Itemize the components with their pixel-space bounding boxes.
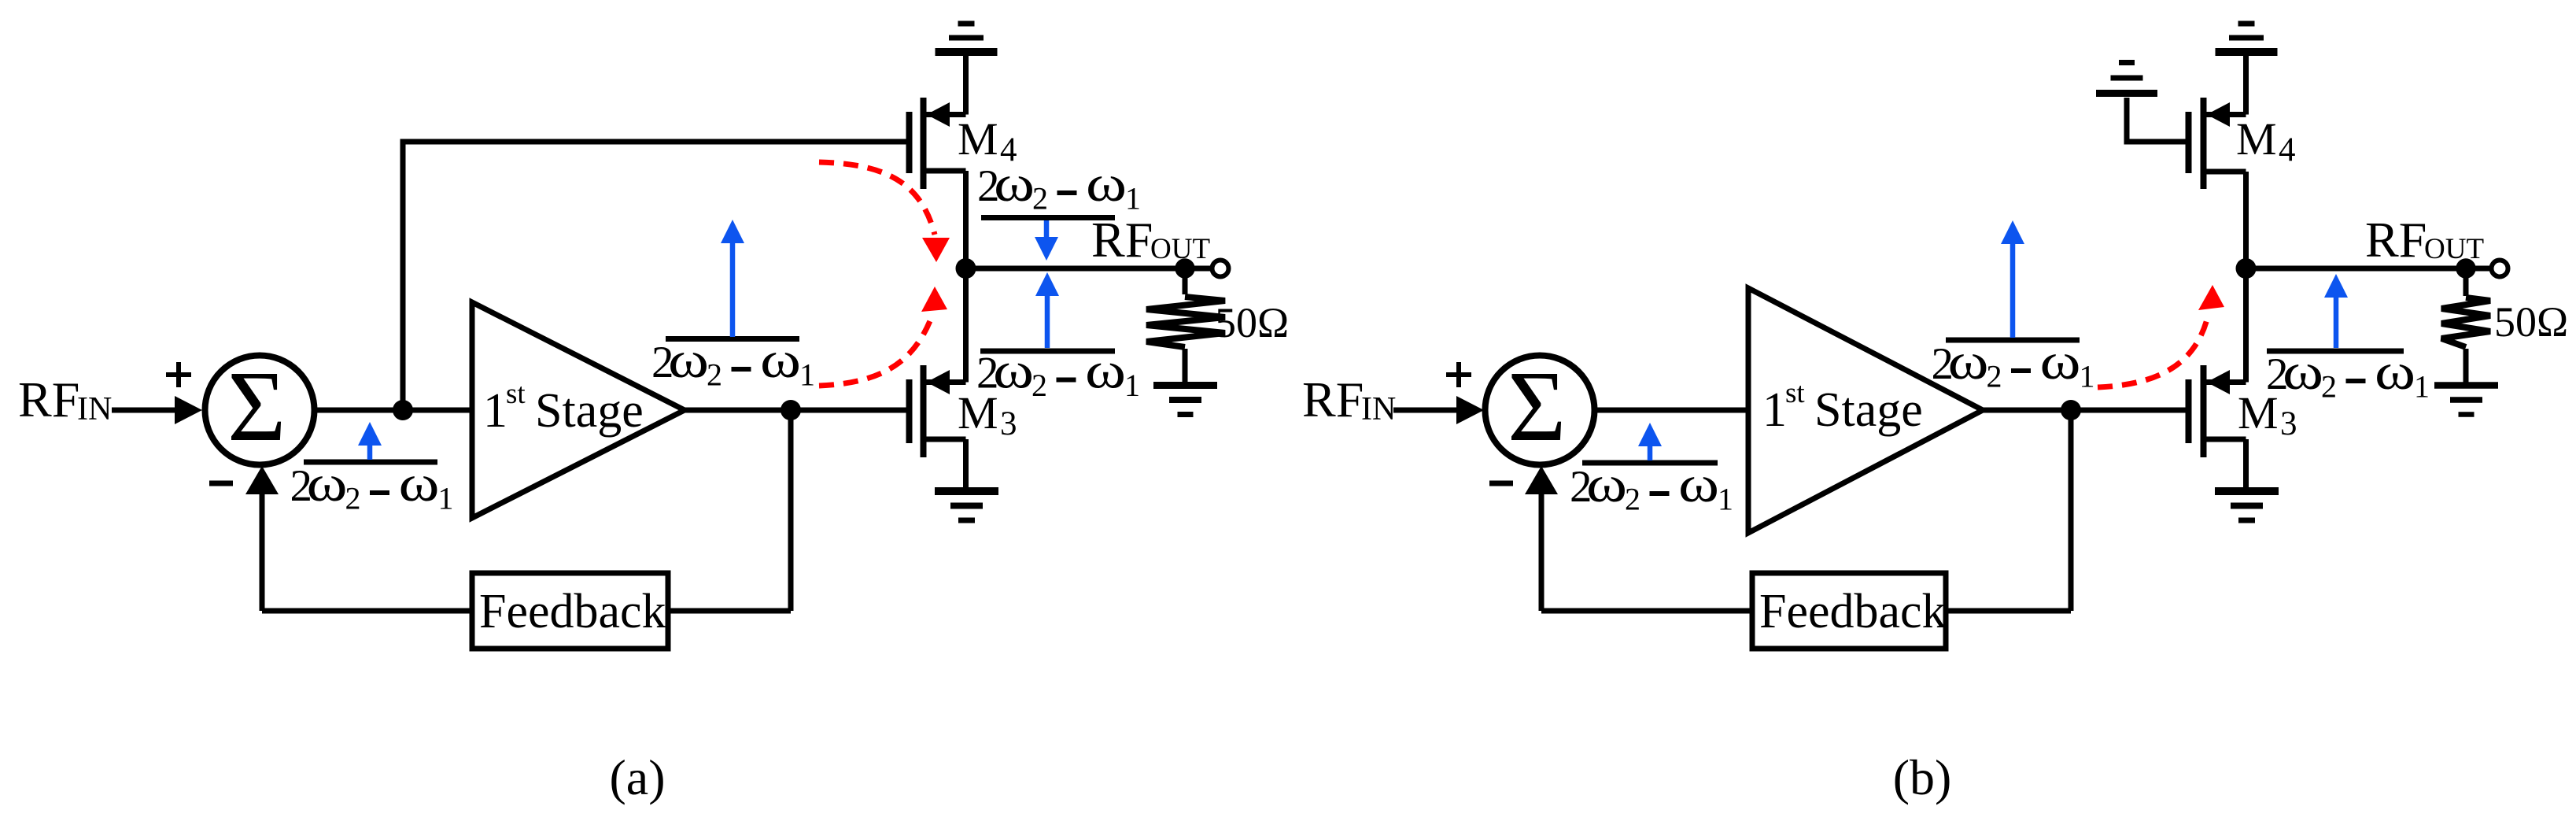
svg-text:1: 1 <box>1718 482 1733 517</box>
svg-text:RF: RF <box>1302 372 1364 427</box>
svg-text:Σ: Σ <box>227 350 286 462</box>
svg-text:Σ: Σ <box>1508 350 1567 462</box>
svg-text:ω: ω <box>2375 342 2415 400</box>
svg-text:IN: IN <box>77 391 112 427</box>
svg-text:2: 2 <box>345 481 361 516</box>
svg-text:3: 3 <box>2280 405 2297 442</box>
svg-text:ω: ω <box>668 331 709 388</box>
svg-text:1: 1 <box>438 481 454 516</box>
svg-text:ω: ω <box>993 342 1034 399</box>
svg-text:ω: ω <box>1678 455 1719 512</box>
svg-text:RF: RF <box>2365 212 2427 268</box>
svg-text:ω: ω <box>2283 342 2323 400</box>
svg-text:ω: ω <box>760 331 801 388</box>
svg-text:RF: RF <box>1091 212 1153 268</box>
svg-text:1: 1 <box>483 384 507 438</box>
svg-text:RF: RF <box>18 372 79 427</box>
svg-text:2: 2 <box>2321 369 2337 405</box>
svg-text:1: 1 <box>799 357 815 393</box>
svg-text:ω: ω <box>307 454 348 512</box>
svg-text:M: M <box>2238 387 2279 438</box>
svg-text:2: 2 <box>1032 368 1047 403</box>
svg-text:2: 2 <box>707 357 722 393</box>
svg-text:ω: ω <box>399 454 440 512</box>
svg-text:2: 2 <box>1032 181 1048 216</box>
svg-text:M: M <box>958 387 998 438</box>
svg-text:1: 1 <box>1125 181 1141 216</box>
svg-text:ω: ω <box>1086 154 1127 212</box>
svg-text:1: 1 <box>2414 369 2430 405</box>
svg-text:1: 1 <box>2080 359 2095 394</box>
svg-text:M: M <box>958 113 998 165</box>
svg-text:ω: ω <box>994 154 1035 212</box>
svg-text:ω: ω <box>1948 332 1989 390</box>
svg-text:ω: ω <box>1085 342 1126 399</box>
svg-text:50Ω: 50Ω <box>1215 299 1289 346</box>
svg-text:Feedback: Feedback <box>479 585 666 638</box>
svg-text:Stage: Stage <box>535 384 644 438</box>
svg-text:IN: IN <box>1361 391 1396 427</box>
svg-text:(a): (a) <box>609 749 665 805</box>
svg-text:st: st <box>506 378 526 410</box>
svg-text:st: st <box>1785 377 1805 409</box>
svg-text:ω: ω <box>1586 455 1627 512</box>
svg-text:1: 1 <box>1124 368 1140 403</box>
svg-text:4: 4 <box>2279 131 2296 168</box>
svg-text:3: 3 <box>1000 405 1017 442</box>
svg-text:1: 1 <box>1762 383 1787 437</box>
svg-text:Stage: Stage <box>1814 383 1923 437</box>
svg-text:2: 2 <box>1625 482 1640 517</box>
svg-text:(b): (b) <box>1893 749 1952 805</box>
svg-text:Feedback: Feedback <box>1759 585 1947 638</box>
svg-text:OUT: OUT <box>2424 233 2484 265</box>
svg-text:2: 2 <box>1987 359 2002 394</box>
svg-text:M: M <box>2236 113 2277 165</box>
svg-text:ω: ω <box>2040 332 2081 390</box>
svg-text:50Ω: 50Ω <box>2494 298 2568 346</box>
